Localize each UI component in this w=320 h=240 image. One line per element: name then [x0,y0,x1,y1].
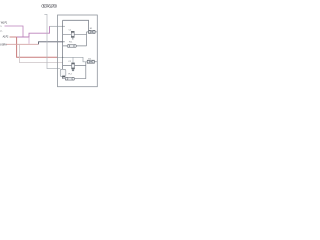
svg-text:0537-61700: 0537-61700 [41,4,57,9]
wire bus vertical [62,20,64,78]
feedthrough E1 leads [87,31,97,33]
box outline A1 assembly [58,15,98,87]
capacitor C2 top lead [72,57,74,63]
filter FL1 body [67,45,76,48]
junction node [62,41,63,42]
junction node [62,57,63,58]
wire salmon lower run [7,43,39,45]
wire red vertical and horizontal to box [17,37,58,57]
wire pink drop at x29 [28,37,30,44]
svg-text:W1 P1: W1 P1 [1,22,8,25]
svg-text:8 GRA: 8 GRA [0,44,7,47]
feedthrough E2 leads [94,61,97,63]
wire pale grey lower run [19,44,62,62]
wire red segment from label [10,36,17,38]
capacitor C2 leads [63,65,86,67]
capacitor C1 body [71,31,74,39]
connector jack at box bottom left [60,69,66,77]
wire pink middle run [17,26,50,37]
wire grey inside box continuation of red [58,57,88,62]
feedthrough E2 body [87,60,94,63]
filter FL1 leads [63,32,87,46]
filter FL2 body [65,77,74,80]
capacitor C2 body [72,63,75,71]
wire stub past bus [63,41,65,43]
capacitor C1 leads [63,34,87,36]
svg-text:A1 P2: A1 P2 [3,35,9,38]
junction node [62,26,63,27]
wire dark slate into box [39,42,63,45]
wire grey into box from pink [50,25,66,27]
wire top horizontal to right drop [63,20,89,30]
leader line from title to connector [44,14,60,68]
filter FL2 leads [63,62,86,79]
feedthrough E1 body [88,30,95,33]
wire pink upper run [5,26,24,37]
